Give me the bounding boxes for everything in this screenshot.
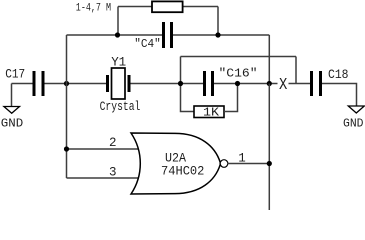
wire: input vertical x=66.5 [66,35,68,178]
wire: vertical x=180.5 from bypass row to crystal row [180,57,182,84]
wire: C17 to input node [45,83,107,85]
wire: pin 3 [67,177,140,179]
ground symbol left [4,107,20,114]
node dot: X node [267,81,272,86]
svg-text:1: 1 [238,152,246,166]
wire: crystal right to node [131,83,204,85]
wire: C16 right to X node [214,83,269,85]
node dot: R1/C4 left [115,32,120,37]
svg-text:2: 2 [109,136,117,150]
wire: output vertical x=269.3 down to edge [268,84,270,211]
capacitor C18 [310,71,322,96]
svg-text:1K: 1K [203,106,220,120]
svg-text:3: 3 [109,166,117,180]
svg-text:"C16": "C16" [219,67,258,81]
wire: GND left lead horizontal [12,83,33,85]
wire: R1 left lead horizontal [118,6,152,8]
capacitor C16 [203,71,214,96]
capacitor C17 [33,71,45,96]
capacitor C4 [162,22,173,48]
wire: R1 right lead vertical down to node [217,7,219,36]
wire: 1K branch right vertical [224,84,238,112]
wire: pin 1 output [228,163,270,165]
wire: pin 2 [67,148,140,150]
svg-text:Y1: Y1 [111,56,126,70]
node dot: pin2 tap [64,146,69,151]
svg-text:"C4": "C4" [134,37,161,51]
wire: R1 right lead horizontal [183,6,219,8]
wire: X to C18 [289,83,311,85]
node dot: crystal right [178,81,183,86]
wire: top row y=35 right segment [173,34,269,36]
wire: 1K branch left vertical [181,84,195,112]
node dot: input node at C17 row [64,81,69,86]
wire: bypass row y=56.5 [181,56,297,58]
wire: vertical x=296 down to C18 row [295,57,297,84]
wire: vertical x=269.3 from top row to X node [268,35,270,84]
svg-text:C17: C17 [5,67,25,81]
wire: C18 right to GND [322,84,357,107]
crystal Y1 [106,68,131,99]
svg-text:GND: GND [343,116,364,130]
node dot: C16/1K right [235,81,240,86]
wire: GND left lead vertical [11,84,13,107]
svg-text:Crystal: Crystal [100,100,141,114]
wire: top row y=35 left segment [67,34,163,36]
op-amp style NOR gate U2A body [131,133,220,194]
svg-text:X: X [279,76,287,95]
svg-text:GND: GND [1,116,23,130]
node dot: pin1 junction [267,161,272,166]
resistor R1 (1-4.7M) [152,1,183,12]
svg-text:C18: C18 [328,68,349,82]
ground symbol right [348,106,364,113]
inverter bubble on gate output [220,160,228,168]
wire: X node stub left [269,83,277,85]
resistor 1K [194,106,224,118]
svg-text:74HC02: 74HC02 [161,163,204,178]
svg-text:1-4,7 M: 1-4,7 M [76,3,111,15]
wire: R1 left lead vertical down to node [117,7,119,36]
node dot: R1/C4 right [215,32,220,37]
